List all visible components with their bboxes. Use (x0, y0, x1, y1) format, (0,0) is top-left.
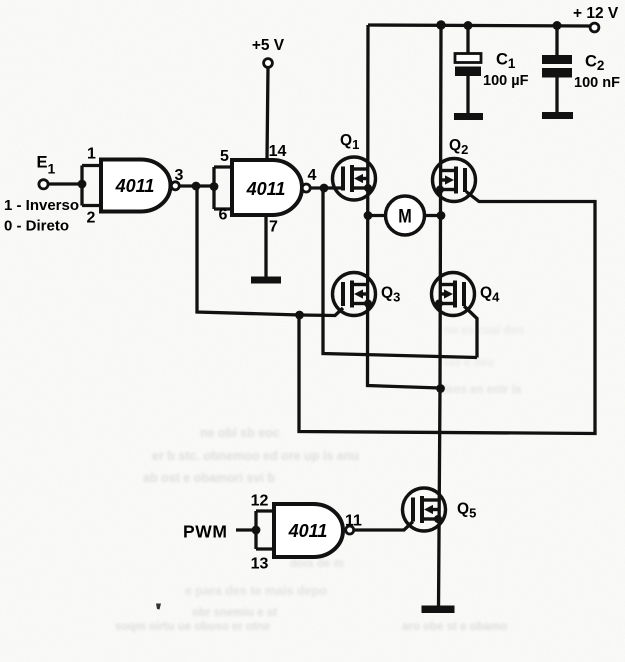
svg-text:aro obe st e obamo: aro obe st e obamo (402, 621, 507, 633)
svg-text:er b stc. obnemoo ed ore up is: er b stc. obnemoo ed ore up is anu (152, 449, 359, 463)
svg-text:M: M (398, 206, 412, 228)
svg-text:PWM: PWM (183, 522, 228, 542)
svg-text:5: 5 (220, 148, 229, 165)
svg-text:obr snemiu e st: obr snemiu e st (192, 607, 277, 619)
svg-text:11: 11 (345, 513, 362, 530)
svg-text:ab ost e obamori svi b: ab ost e obamori svi b (143, 471, 275, 485)
svg-text:6: 6 (219, 207, 228, 224)
svg-text:4011: 4011 (288, 521, 328, 541)
svg-text:+ 12 V: + 12 V (573, 5, 619, 22)
svg-text:100 µF: 100 µF (483, 73, 529, 89)
svg-text:ne obi sb eoc: ne obi sb eoc (200, 426, 280, 440)
svg-text:4011: 4011 (246, 179, 286, 199)
svg-text:+5 V: +5 V (252, 37, 285, 54)
svg-text:soqm oirtu ue obuso er otne: soqm oirtu ue obuso er otne (115, 621, 270, 633)
svg-text:no es cual den: no es cual den (444, 325, 524, 337)
svg-text:1 - Inverso: 1 - Inverso (4, 197, 79, 214)
svg-text:4: 4 (308, 167, 317, 184)
svg-text:deos en entr la: deos en entr la (440, 384, 522, 396)
svg-text:e para des te mais depo: e para des te mais depo (185, 584, 327, 598)
svg-text:0 - Direto: 0 - Direto (4, 218, 69, 235)
svg-text:dois de m: dois de m (290, 558, 344, 570)
svg-text:14: 14 (269, 143, 287, 160)
svg-text:100 nF: 100 nF (574, 75, 620, 91)
svg-text:12: 12 (251, 493, 269, 510)
svg-text:3: 3 (175, 167, 184, 184)
svg-text:2: 2 (87, 210, 96, 227)
svg-text:4011: 4011 (115, 176, 155, 196)
svg-text:1: 1 (87, 146, 96, 163)
svg-text:7: 7 (269, 219, 278, 236)
svg-text:13: 13 (251, 556, 269, 573)
